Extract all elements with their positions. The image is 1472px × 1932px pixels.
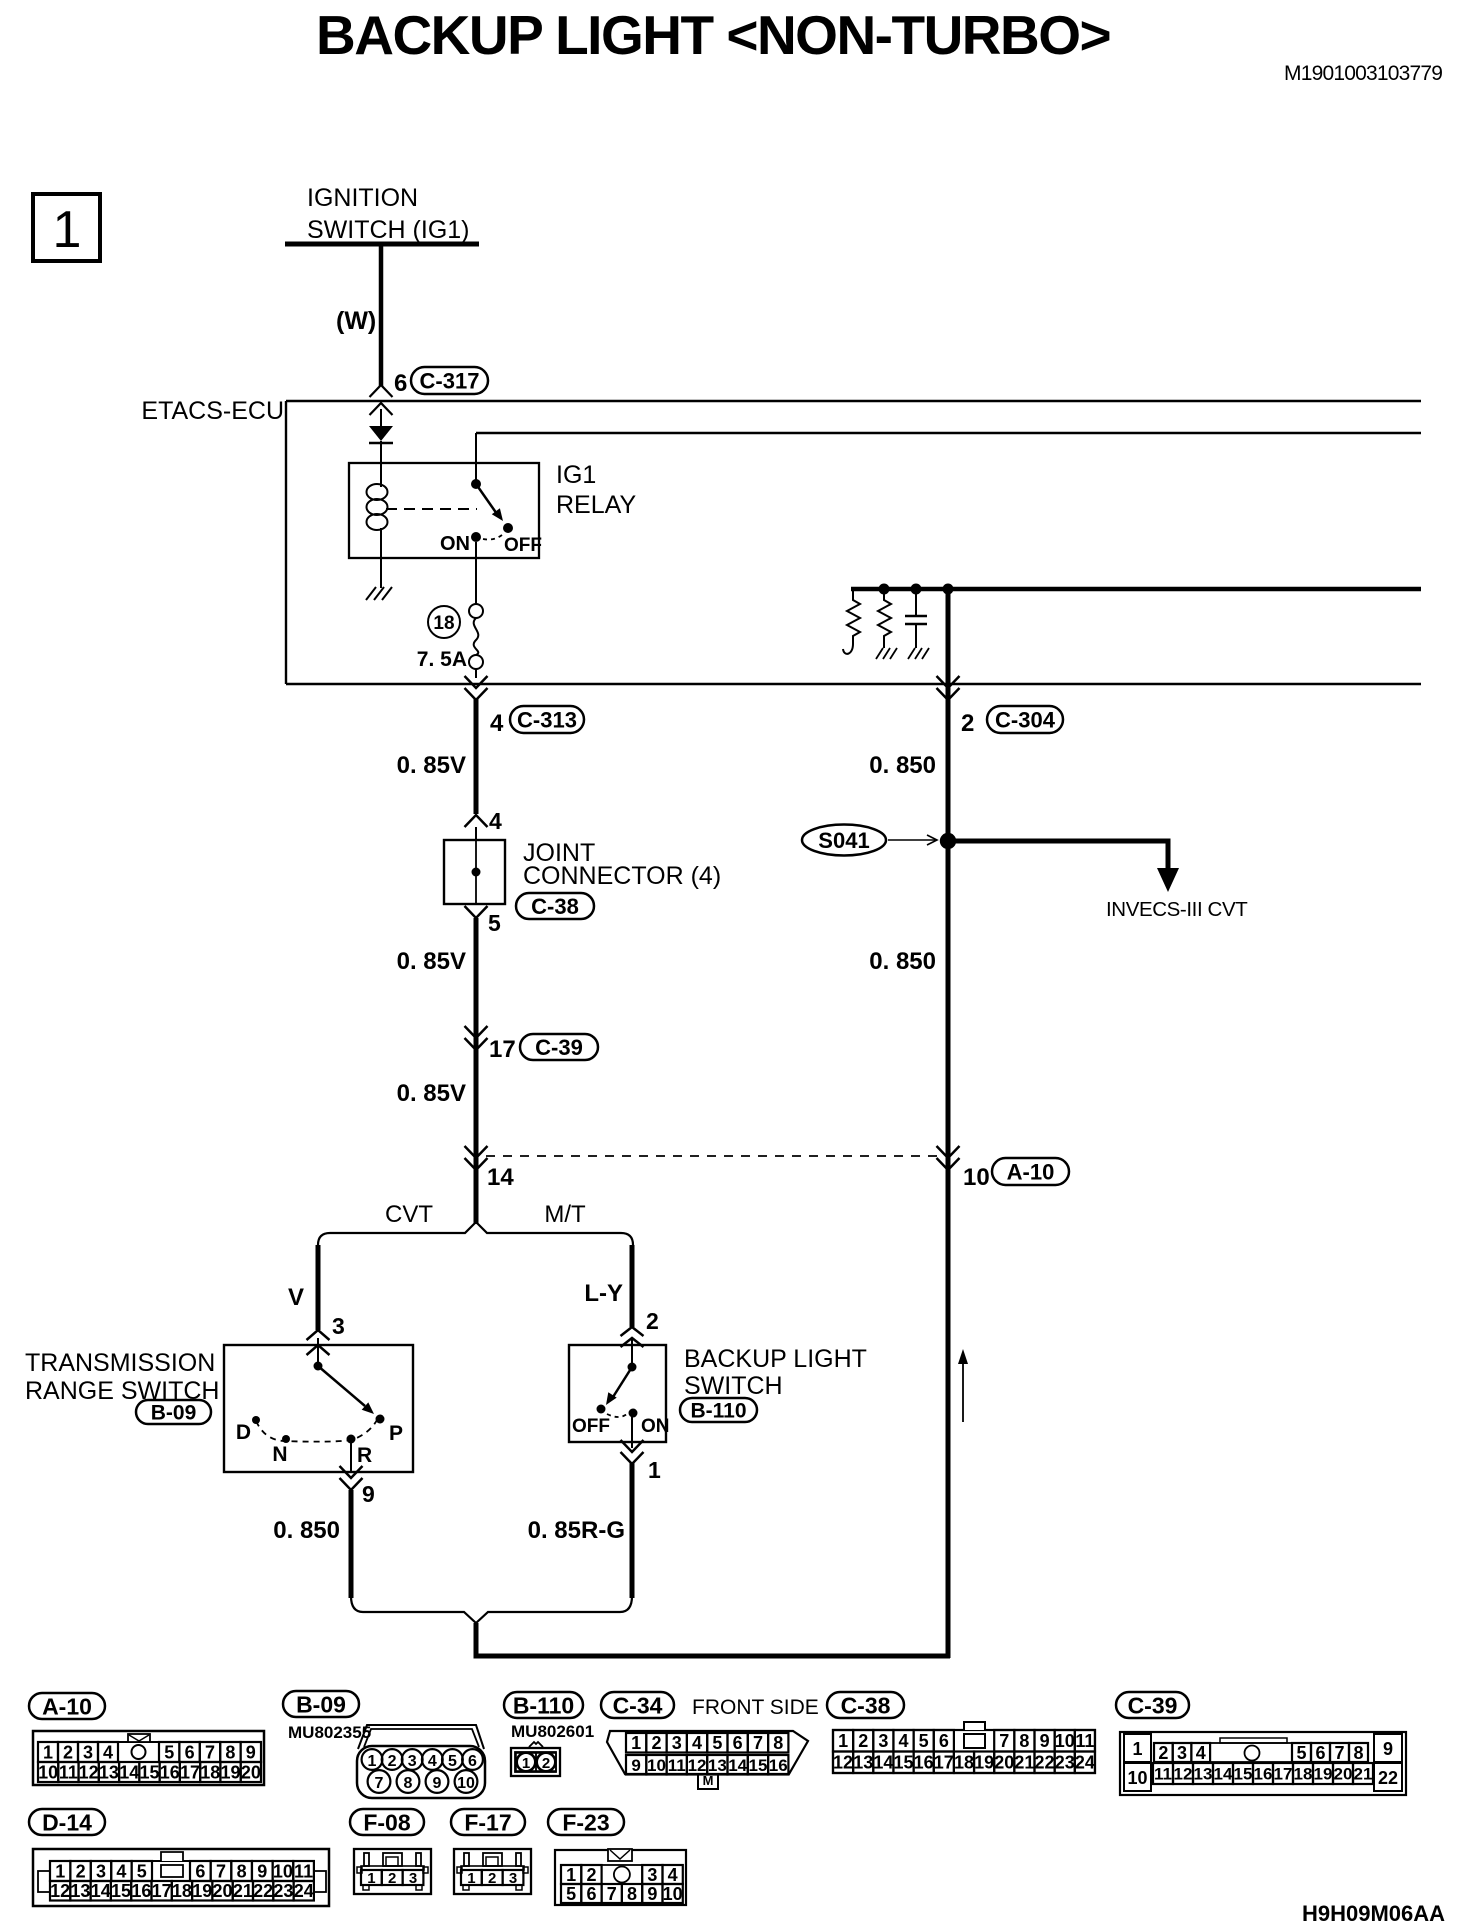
range switch pivot <box>314 1362 323 1371</box>
svg-text:1: 1 <box>55 1861 65 1881</box>
svg-text:RELAY: RELAY <box>556 491 636 519</box>
svg-text:23: 23 <box>273 1881 293 1901</box>
svg-text:11: 11 <box>59 1762 78 1782</box>
svg-text:13: 13 <box>99 1762 119 1782</box>
merge brace bottom <box>351 1596 632 1623</box>
connector B-110 pill inline <box>680 1398 757 1422</box>
svg-text:CONNECTOR (4): CONNECTOR (4) <box>523 862 721 890</box>
ground for C1 <box>908 648 929 659</box>
svg-text:L-Y: L-Y <box>584 1280 623 1307</box>
svg-text:10: 10 <box>273 1861 293 1881</box>
svg-text:9: 9 <box>246 1742 256 1762</box>
svg-text:15: 15 <box>748 1756 767 1775</box>
wire diode to relay coil <box>380 441 382 487</box>
svg-text:11: 11 <box>294 1861 313 1881</box>
svg-text:0. 850: 0. 850 <box>273 1517 340 1544</box>
svg-text:6: 6 <box>586 1884 596 1904</box>
svg-text:22: 22 <box>1378 1768 1398 1788</box>
svg-text:18: 18 <box>172 1881 192 1901</box>
connector A-10 chevrons pin 10 <box>937 1146 960 1158</box>
svg-text:6: 6 <box>185 1742 195 1762</box>
relay box IG1 <box>349 463 539 558</box>
svg-text:24: 24 <box>294 1881 314 1901</box>
svg-text:R: R <box>357 1444 372 1467</box>
svg-text:3: 3 <box>672 1733 682 1753</box>
connector C-38 pill <box>516 893 594 919</box>
joint connector pin 4 chevron <box>465 815 488 827</box>
connector C-313 chevrons <box>465 676 488 688</box>
wire: M/T branch lower <box>630 1462 635 1598</box>
svg-text:3: 3 <box>1177 1743 1187 1763</box>
svg-text:1: 1 <box>53 201 82 259</box>
connector D-14 drawing <box>33 1849 329 1906</box>
svg-text:6: 6 <box>195 1861 205 1881</box>
svg-text:OFF: OFF <box>504 535 542 556</box>
svg-text:8: 8 <box>237 1861 247 1881</box>
connector B-09 pill inline <box>136 1400 211 1424</box>
svg-text:2: 2 <box>388 1870 396 1887</box>
wire: left main to range switch <box>474 918 479 1224</box>
svg-text:7: 7 <box>999 1731 1009 1751</box>
svg-text:F-17: F-17 <box>464 1809 511 1835</box>
svg-text:0. 85V: 0. 85V <box>397 752 466 779</box>
svg-text:(W): (W) <box>336 307 376 335</box>
svg-text:2: 2 <box>961 710 974 737</box>
ground for R2 <box>876 648 897 659</box>
svg-text:18: 18 <box>200 1762 220 1782</box>
chevron below ETACS top line <box>370 403 393 415</box>
svg-text:M: M <box>703 1773 714 1788</box>
svg-text:9: 9 <box>1040 1731 1050 1751</box>
diode D1 <box>369 426 393 441</box>
backup light switch pin 2 chevrons <box>621 1327 644 1336</box>
svg-text:20: 20 <box>241 1762 261 1782</box>
svg-text:7: 7 <box>216 1861 226 1881</box>
svg-text:14: 14 <box>119 1762 139 1782</box>
svg-text:F-23: F-23 <box>562 1809 609 1835</box>
svg-text:3: 3 <box>878 1731 888 1751</box>
svg-text:11: 11 <box>1154 1765 1172 1784</box>
svg-text:B-110: B-110 <box>690 1400 746 1423</box>
svg-text:14: 14 <box>487 1164 514 1191</box>
svg-text:0. 85R-G: 0. 85R-G <box>528 1517 625 1544</box>
ETACS-ECU box left line <box>285 401 287 684</box>
harness boundary dashed line <box>486 1155 940 1157</box>
svg-text:8: 8 <box>225 1742 235 1762</box>
contact R <box>347 1435 356 1444</box>
connector C-313 pill <box>510 706 584 733</box>
svg-text:9: 9 <box>362 1481 375 1507</box>
svg-text:15: 15 <box>139 1762 159 1782</box>
fuse number 18 circled <box>428 606 460 638</box>
connector B-110 pill <box>504 1692 583 1718</box>
svg-text:1: 1 <box>648 1457 661 1483</box>
ETACS-ECU internal feed line <box>476 432 1421 434</box>
svg-text:4: 4 <box>116 1861 126 1881</box>
current direction arrow <box>962 1362 964 1422</box>
svg-text:B-110: B-110 <box>513 1692 574 1718</box>
contact P <box>376 1415 385 1424</box>
svg-text:10: 10 <box>647 1756 666 1775</box>
svg-text:15: 15 <box>1234 1765 1253 1784</box>
svg-text:2: 2 <box>542 1755 550 1772</box>
svg-text:0. 85V: 0. 85V <box>397 1080 466 1107</box>
svg-text:21: 21 <box>1014 1753 1034 1773</box>
fuse 18 symbol <box>469 604 483 618</box>
svg-text:9: 9 <box>257 1861 267 1881</box>
node dot R2 <box>879 584 890 595</box>
svg-text:M1901003103779: M1901003103779 <box>1284 62 1442 85</box>
svg-text:12: 12 <box>833 1753 853 1773</box>
wire coil to ground <box>380 528 382 588</box>
svg-text:H9H09M06AA: H9H09M06AA <box>1302 1901 1445 1926</box>
wire relay to fuse <box>475 542 477 604</box>
svg-text:2: 2 <box>488 1870 496 1887</box>
range switch dashed arc <box>256 1420 377 1442</box>
svg-text:19: 19 <box>974 1753 994 1773</box>
svg-text:7: 7 <box>753 1733 763 1753</box>
relay ON-OFF dashed arc <box>483 535 502 540</box>
svg-text:2: 2 <box>646 1308 659 1334</box>
svg-text:M/T: M/T <box>544 1201 586 1228</box>
svg-text:SWITCH: SWITCH <box>684 1372 783 1400</box>
svg-text:5: 5 <box>164 1742 174 1762</box>
connector A-10 pill <box>29 1693 105 1719</box>
resistor R1 <box>843 589 860 654</box>
svg-text:SWITCH (IG1): SWITCH (IG1) <box>307 216 470 244</box>
wire: left main 0.85V run <box>474 698 479 814</box>
svg-text:8: 8 <box>773 1733 783 1753</box>
svg-text:4: 4 <box>692 1733 702 1753</box>
svg-text:2: 2 <box>76 1861 86 1881</box>
svg-text:16: 16 <box>1254 1765 1273 1784</box>
svg-text:16: 16 <box>914 1753 934 1773</box>
svg-text:19: 19 <box>192 1881 212 1901</box>
svg-text:C-39: C-39 <box>535 1035 583 1060</box>
svg-text:9: 9 <box>1383 1739 1393 1759</box>
relay contact pivot <box>471 479 481 489</box>
svg-text:P: P <box>389 1422 403 1445</box>
svg-text:13: 13 <box>70 1881 90 1901</box>
range switch arm <box>318 1366 365 1406</box>
svg-text:2: 2 <box>1158 1743 1168 1763</box>
svg-text:7: 7 <box>375 1775 384 1792</box>
splice pointer arrow <box>888 839 936 841</box>
connector C-317 pill <box>411 367 488 394</box>
node dot right main <box>943 584 954 595</box>
svg-text:23: 23 <box>1055 1753 1075 1773</box>
svg-text:12: 12 <box>79 1762 99 1782</box>
svg-text:6: 6 <box>394 370 407 397</box>
svg-text:4: 4 <box>103 1742 113 1762</box>
svg-text:BACKUP LIGHT <NON-TURBO>: BACKUP LIGHT <NON-TURBO> <box>316 4 1110 66</box>
connector B-09 drawing <box>357 1725 485 1798</box>
svg-text:B-09: B-09 <box>296 1691 346 1717</box>
svg-text:6: 6 <box>733 1733 743 1753</box>
svg-text:1: 1 <box>522 1755 530 1772</box>
connector C-38 drawing <box>833 1722 1095 1773</box>
svg-text:11: 11 <box>1075 1731 1094 1751</box>
svg-text:15: 15 <box>111 1881 131 1901</box>
svg-text:9: 9 <box>433 1775 442 1792</box>
svg-text:14: 14 <box>873 1753 893 1773</box>
svg-text:3: 3 <box>647 1865 657 1885</box>
backup light switch pivot <box>628 1363 637 1372</box>
svg-text:4: 4 <box>489 808 502 834</box>
connector C-304 pill <box>987 706 1063 733</box>
wire: merged return run <box>476 1623 950 1656</box>
connector C-34 pill <box>601 1692 674 1718</box>
svg-text:13: 13 <box>853 1753 873 1773</box>
svg-text:16: 16 <box>160 1762 180 1782</box>
svg-text:S041: S041 <box>818 828 869 853</box>
svg-text:0. 85V: 0. 85V <box>397 948 466 975</box>
connector C-39 chevrons pin 17 <box>465 1026 488 1038</box>
ignition switch supply bar <box>285 242 479 247</box>
svg-text:3: 3 <box>83 1742 93 1762</box>
wire fuse to ETACS edge <box>475 669 477 678</box>
ETACS-ECU box top line <box>286 400 1421 402</box>
svg-text:2: 2 <box>586 1865 596 1885</box>
relay coil <box>367 484 388 530</box>
svg-text:IG1: IG1 <box>556 461 596 489</box>
svg-text:D: D <box>236 1421 251 1444</box>
svg-text:IGNITION: IGNITION <box>307 184 418 212</box>
connector F-23 pill <box>548 1809 624 1835</box>
svg-text:C-39: C-39 <box>1128 1692 1178 1718</box>
svg-text:6: 6 <box>939 1731 949 1751</box>
svg-text:N: N <box>272 1443 287 1466</box>
svg-text:7: 7 <box>1334 1743 1344 1763</box>
svg-text:20: 20 <box>994 1753 1014 1773</box>
node dot C1 <box>911 584 922 595</box>
svg-text:17: 17 <box>152 1881 172 1901</box>
svg-text:16: 16 <box>769 1756 788 1775</box>
svg-text:17: 17 <box>1274 1765 1293 1784</box>
connector C-38 pill <box>827 1692 904 1718</box>
svg-text:C-38: C-38 <box>531 894 579 919</box>
ground for relay coil <box>366 587 392 600</box>
svg-text:FRONT SIDE: FRONT SIDE <box>692 1696 819 1719</box>
splice S041 ellipse <box>802 825 886 856</box>
svg-text:CVT: CVT <box>385 1201 433 1228</box>
relay switch arm <box>476 484 497 514</box>
svg-text:21: 21 <box>233 1881 253 1901</box>
sheet number box 1 <box>33 194 100 261</box>
svg-text:4: 4 <box>428 1753 437 1770</box>
wire: right main 0.850 run <box>946 589 951 1658</box>
resistor R2 <box>878 589 891 648</box>
svg-text:2: 2 <box>858 1731 868 1751</box>
svg-text:8: 8 <box>404 1775 413 1792</box>
svg-text:5: 5 <box>488 910 501 936</box>
capacitor C1 <box>915 589 917 616</box>
svg-text:21: 21 <box>1354 1765 1373 1784</box>
svg-text:8: 8 <box>627 1884 637 1904</box>
wire: branch to INVECS-III CVT <box>948 841 1168 870</box>
svg-text:10: 10 <box>38 1762 58 1782</box>
svg-text:2: 2 <box>388 1753 397 1770</box>
wire: CVT branch lower <box>349 1490 354 1598</box>
svg-text:0. 850: 0. 850 <box>869 752 936 779</box>
connector B-09 pill <box>283 1691 359 1717</box>
svg-text:24: 24 <box>1075 1753 1095 1773</box>
backup switch dashed arc <box>607 1414 627 1417</box>
svg-text:F-08: F-08 <box>363 1809 411 1835</box>
svg-text:5: 5 <box>137 1861 147 1881</box>
svg-text:8: 8 <box>1019 1731 1029 1751</box>
svg-text:20: 20 <box>213 1881 233 1901</box>
svg-text:5: 5 <box>566 1884 576 1904</box>
splice junction dot <box>940 833 956 849</box>
connector F-23 drawing <box>555 1849 686 1905</box>
range switch pin 3 chevron <box>307 1330 330 1340</box>
svg-text:20: 20 <box>1334 1765 1353 1784</box>
contact OFF <box>597 1405 606 1414</box>
svg-text:9: 9 <box>647 1884 657 1904</box>
svg-text:10: 10 <box>663 1884 683 1904</box>
wire relay contact feed <box>475 433 477 484</box>
contact N <box>282 1435 290 1443</box>
connector F-17 pill <box>451 1809 525 1835</box>
svg-text:B-09: B-09 <box>151 1402 197 1425</box>
svg-text:13: 13 <box>1194 1765 1213 1784</box>
connector F-17 drawing <box>454 1849 531 1894</box>
svg-text:4: 4 <box>490 710 504 737</box>
svg-text:19: 19 <box>1314 1765 1333 1784</box>
svg-text:1: 1 <box>838 1731 848 1751</box>
svg-text:5: 5 <box>919 1731 929 1751</box>
connector A-10 pill <box>992 1158 1069 1185</box>
svg-text:5: 5 <box>1296 1743 1306 1763</box>
svg-text:18: 18 <box>1294 1765 1313 1784</box>
svg-text:11: 11 <box>668 1756 686 1775</box>
svg-text:ETACS-ECU: ETACS-ECU <box>141 397 284 425</box>
svg-text:C-317: C-317 <box>420 368 480 393</box>
svg-text:1: 1 <box>631 1733 641 1753</box>
svg-text:BACKUP LIGHT: BACKUP LIGHT <box>684 1345 867 1373</box>
connector A-10 drawing <box>33 1731 264 1785</box>
svg-text:4: 4 <box>668 1865 678 1885</box>
connector C-39 pill <box>520 1034 598 1060</box>
connector C-34 drawing <box>607 1731 808 1789</box>
svg-text:22: 22 <box>253 1881 273 1901</box>
svg-text:C-313: C-313 <box>517 707 577 732</box>
svg-text:8: 8 <box>1353 1743 1363 1763</box>
svg-text:6: 6 <box>1315 1743 1325 1763</box>
svg-text:19: 19 <box>221 1762 241 1782</box>
joint connector C-38 box <box>444 840 505 904</box>
svg-text:A-10: A-10 <box>1007 1159 1055 1184</box>
svg-text:ON: ON <box>641 1416 670 1437</box>
svg-text:2: 2 <box>63 1742 73 1762</box>
connector F-08 drawing <box>354 1849 431 1894</box>
svg-text:17: 17 <box>180 1762 200 1782</box>
svg-text:7. 5A: 7. 5A <box>417 648 467 671</box>
contact D <box>252 1416 260 1424</box>
svg-text:18: 18 <box>954 1753 974 1773</box>
wire into joint connector <box>475 827 477 840</box>
svg-text:TRANSMISSION: TRANSMISSION <box>25 1349 215 1377</box>
ETACS-ECU box bottom line <box>286 683 1421 685</box>
svg-text:22: 22 <box>1035 1753 1055 1773</box>
svg-text:3: 3 <box>408 1753 417 1770</box>
connector C-39 pill <box>1116 1692 1189 1718</box>
svg-text:1: 1 <box>368 1753 377 1770</box>
svg-text:16: 16 <box>131 1881 151 1901</box>
svg-text:MU802601: MU802601 <box>511 1722 594 1741</box>
transmission range switch box <box>224 1345 413 1472</box>
svg-text:ON: ON <box>440 533 470 555</box>
svg-text:V: V <box>288 1284 304 1311</box>
svg-text:D-14: D-14 <box>42 1809 92 1835</box>
ETACS internal bus thick line <box>851 587 1421 592</box>
svg-text:15: 15 <box>894 1753 914 1773</box>
svg-text:C-38: C-38 <box>841 1692 891 1718</box>
svg-text:7: 7 <box>205 1742 215 1762</box>
wire backup switch pin 1 <box>631 1417 633 1448</box>
svg-text:5: 5 <box>712 1733 722 1753</box>
connector B-110 drawing <box>511 1742 560 1776</box>
connector C-39 drawing <box>1120 1732 1406 1795</box>
connector F-08 pill <box>350 1809 424 1835</box>
svg-text:1: 1 <box>566 1865 576 1885</box>
svg-text:C-304: C-304 <box>995 707 1056 732</box>
joint connector pin 5 chevron <box>465 906 488 918</box>
svg-text:6: 6 <box>468 1753 477 1770</box>
svg-text:4: 4 <box>1196 1743 1206 1763</box>
wire into diode <box>380 409 382 426</box>
connector D-14 pill <box>29 1809 105 1835</box>
relay OFF contact <box>503 523 513 533</box>
svg-text:3: 3 <box>96 1861 106 1881</box>
contact ON <box>629 1409 638 1418</box>
svg-text:A-10: A-10 <box>42 1693 92 1719</box>
wire: M/T branch <box>630 1245 635 1327</box>
connector A-10 chevrons pin 14 <box>465 1146 488 1158</box>
svg-text:1: 1 <box>43 1742 53 1762</box>
CVT/MT split brace <box>318 1222 633 1245</box>
svg-text:INVECS-III CVT: INVECS-III CVT <box>1106 898 1248 921</box>
wire: CVT branch <box>316 1245 321 1330</box>
svg-text:14: 14 <box>91 1881 111 1901</box>
svg-text:2: 2 <box>651 1733 661 1753</box>
svg-text:3: 3 <box>332 1313 345 1339</box>
svg-text:10: 10 <box>1127 1768 1147 1788</box>
svg-text:9: 9 <box>631 1756 640 1775</box>
wire range switch pin 9 <box>350 1443 352 1472</box>
svg-text:10: 10 <box>1055 1731 1075 1751</box>
svg-text:MU802355: MU802355 <box>288 1723 371 1742</box>
backup light switch box <box>569 1345 666 1442</box>
svg-text:17: 17 <box>489 1036 516 1063</box>
connector C-304 chevrons <box>937 676 960 688</box>
svg-text:1: 1 <box>1132 1739 1142 1759</box>
svg-text:10: 10 <box>963 1164 990 1191</box>
wire: ignition feed (W) <box>379 246 384 386</box>
backup light switch arm <box>613 1367 632 1397</box>
svg-text:7: 7 <box>607 1884 617 1904</box>
svg-text:C-34: C-34 <box>613 1692 663 1718</box>
connector C-317 chevron pin 6 <box>370 385 393 397</box>
svg-text:OFF: OFF <box>572 1416 610 1437</box>
svg-text:12: 12 <box>1174 1765 1193 1784</box>
svg-text:17: 17 <box>934 1753 954 1773</box>
relay coil-contact dashed link <box>386 508 477 510</box>
svg-text:4: 4 <box>899 1731 909 1751</box>
svg-text:18: 18 <box>433 613 454 634</box>
svg-text:14: 14 <box>1214 1765 1233 1784</box>
